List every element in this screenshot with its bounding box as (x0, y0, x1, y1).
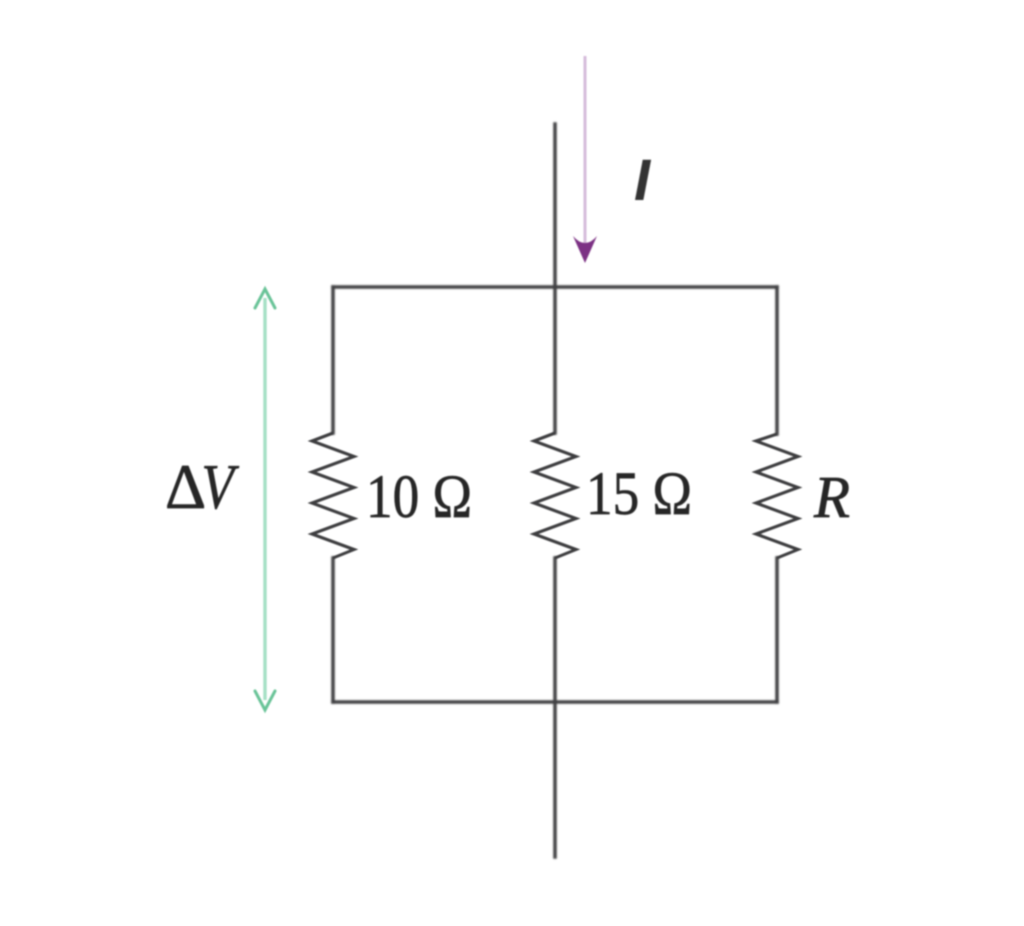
svg-text:Δ: Δ (165, 451, 206, 522)
svg-text:R: R (813, 464, 850, 530)
svg-text:10 Ω: 10 Ω (366, 464, 472, 531)
svg-text:15 Ω: 15 Ω (586, 461, 692, 528)
svg-text:V: V (202, 451, 240, 522)
svg-text:I: I (634, 148, 652, 213)
